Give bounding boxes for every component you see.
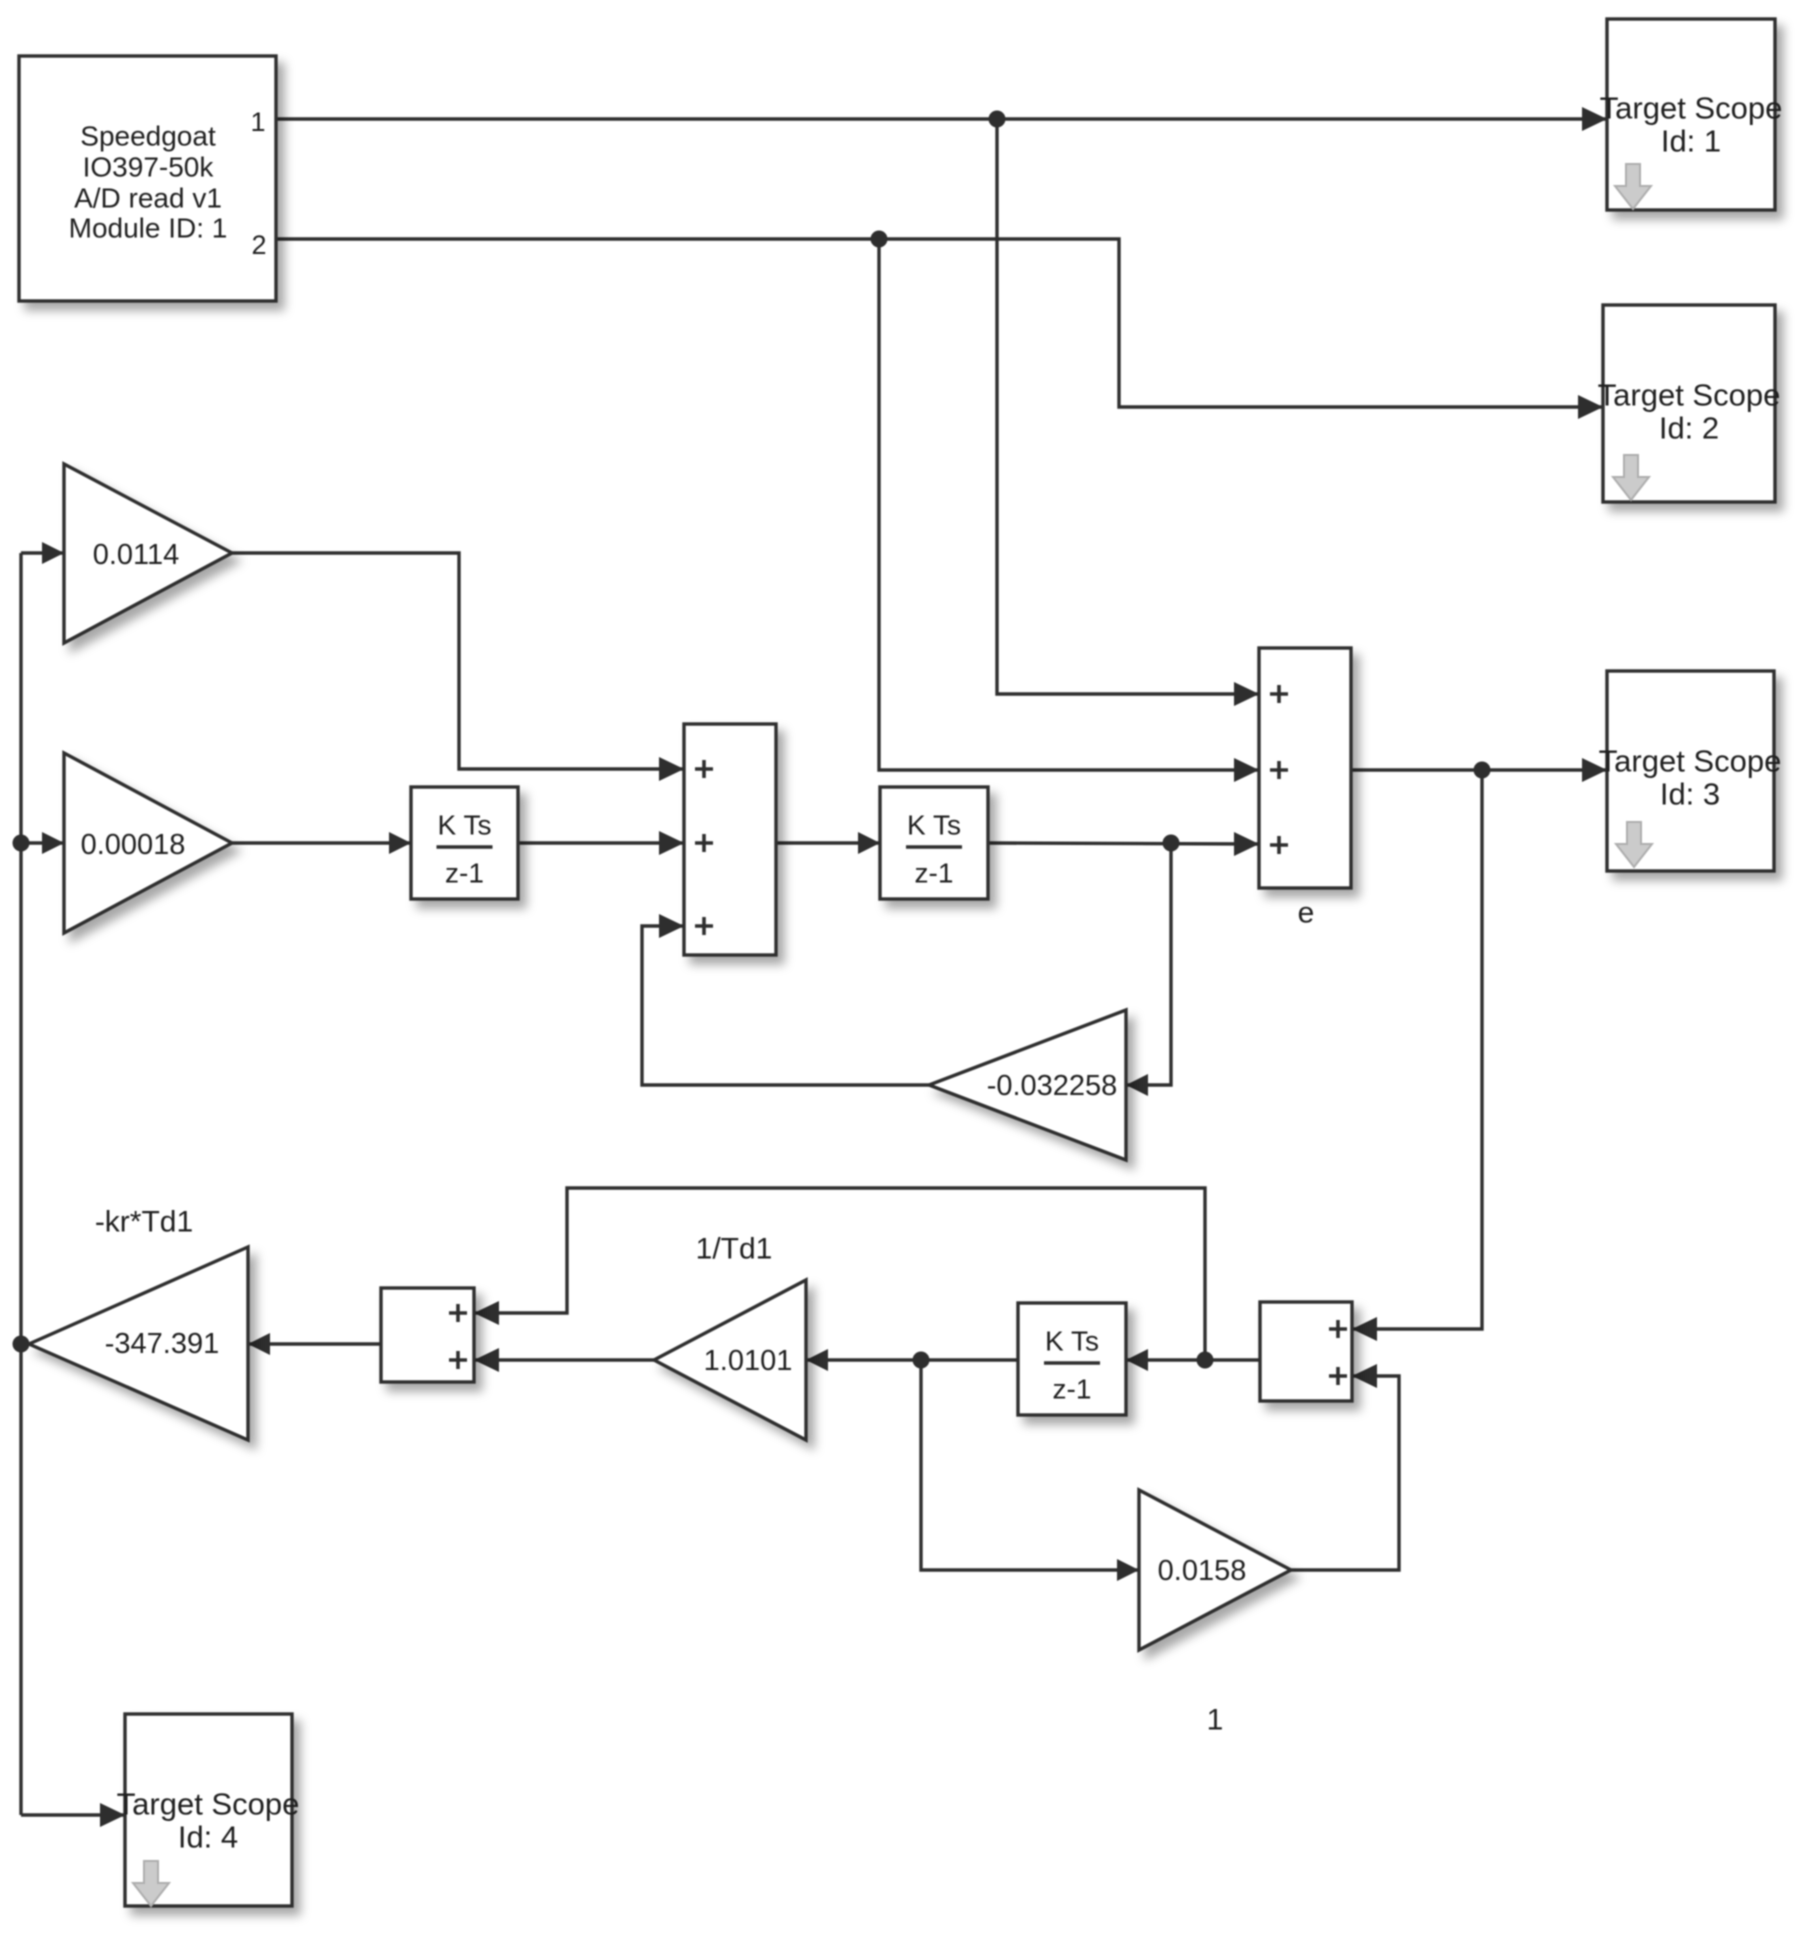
junction bus to gain 0.00018 (13, 835, 30, 852)
svg-text:Target Scope: Target Scope (1600, 91, 1783, 126)
block Target Scope Id 2 (1598, 305, 1781, 502)
gain -347.391 (-kr*Td1) (29, 1247, 248, 1440)
junction bus at -347.391 output (13, 1336, 30, 1353)
block Speedgoat IO397-50k A/D read (19, 56, 276, 301)
gain 0.0158 (1139, 1490, 1291, 1650)
svg-text:Module ID: 1: Module ID: 1 (69, 213, 228, 244)
wire gain 0.0114 output to sum 1 input 1 (232, 553, 684, 781)
svg-text:1/Td1: 1/Td1 (696, 1233, 773, 1266)
label e (1298, 897, 1315, 930)
wire K Ts z-1 (3) output to gain 1.0101 input (806, 1349, 1018, 1371)
junction on sum4 output wire (1197, 1352, 1214, 1369)
junction on port-2 wire (871, 231, 888, 248)
svg-text:z-1: z-1 (915, 858, 954, 889)
wire output 2 of Speedgoat toward Target Scope 2 (276, 239, 1603, 419)
svg-text:Target Scope: Target Scope (1599, 744, 1782, 779)
svg-text:1: 1 (250, 107, 265, 137)
svg-text:A/D read v1: A/D read v1 (74, 183, 222, 214)
wire K Ts z-1 (1) output to sum 1 input 2 (518, 831, 684, 855)
svg-text:0.0114: 0.0114 (93, 539, 180, 571)
sum block 3 (reversed, two inputs) (381, 1288, 474, 1382)
svg-text:1: 1 (1207, 1704, 1224, 1737)
sum block 4 (reversed, two inputs) (1260, 1302, 1352, 1401)
wire junction port1 down to sum e input 1 (997, 119, 1259, 706)
svg-text:Id: 4: Id: 4 (178, 1820, 238, 1855)
wire K Ts z-1 (2) output to sum e input 3 (988, 832, 1259, 856)
wire sum 3 output to gain -347.391 input (248, 1333, 381, 1355)
junction after K Ts z-1 (2) (1163, 835, 1180, 852)
wire gain 1.0101 output to sum 3 input 2 (474, 1348, 654, 1372)
wire gain -347.391 output to bus (21, 1342, 29, 1345)
wire sum e output to Target Scope 3 (1351, 758, 1607, 782)
junction before gain 1.0101 (913, 1352, 930, 1369)
svg-text:Id: 1: Id: 1 (1661, 124, 1721, 159)
sum block e (three inputs) (1259, 648, 1351, 888)
junction on port-1 wire (989, 111, 1006, 128)
block Target Scope Id 1 (1600, 19, 1783, 210)
discrete integrator K Ts/(z-1) #1 (411, 787, 518, 899)
block Target Scope Id 3 (1599, 671, 1782, 871)
svg-text:-kr*Td1: -kr*Td1 (95, 1206, 193, 1239)
wire junction down to gain 0.0158 input (921, 1360, 1139, 1581)
gain 0.0114 (64, 464, 232, 643)
wire gain 0.00018 output to K Ts z-1 (1) input (232, 832, 411, 854)
svg-text:1.0101: 1.0101 (704, 1345, 793, 1377)
svg-text:-0.032258: -0.032258 (987, 1070, 1118, 1102)
wire junction down to gain -0.032258 input (1126, 843, 1171, 1096)
wire bus to gain 0.0114 input (21, 542, 64, 564)
svg-text:K Ts: K Ts (907, 810, 961, 841)
svg-text:0.0158: 0.0158 (1158, 1555, 1247, 1587)
svg-text:e: e (1298, 897, 1315, 930)
wire sum 1 output to K Ts z-1 (2) input (776, 832, 880, 854)
discrete integrator K Ts/(z-1) #3 (1018, 1303, 1126, 1415)
wire bus to Target Scope 4 (21, 1803, 125, 1827)
gain -0.032258 (929, 1010, 1126, 1160)
svg-text:K Ts: K Ts (438, 810, 492, 841)
svg-text:0.00018: 0.00018 (81, 829, 186, 861)
junction on e output (1474, 762, 1491, 779)
sum block 1 (three inputs) (684, 724, 776, 955)
svg-text:z-1: z-1 (1053, 1374, 1092, 1405)
label -kr*Td1 (95, 1206, 193, 1239)
svg-text:Id: 2: Id: 2 (1659, 411, 1719, 446)
wire sum 4 output to K Ts z-1 (3) input (1126, 1349, 1260, 1371)
block Target Scope Id 4 (117, 1714, 300, 1906)
wire top feedback to sum 3 input 1 (474, 1188, 1205, 1360)
svg-text:Id: 3: Id: 3 (1660, 777, 1720, 812)
wire junction port2 down to sum e input 2 (879, 239, 1259, 782)
svg-text:2: 2 (251, 230, 266, 260)
wire gain -0.032258 output to sum 1 input 3 (642, 914, 929, 1085)
discrete integrator K Ts/(z-1) #2 (880, 787, 988, 899)
svg-text:K Ts: K Ts (1045, 1326, 1099, 1357)
svg-text:-347.391: -347.391 (105, 1328, 220, 1360)
wire left feedback bus vertical (19, 553, 22, 1815)
svg-text:Target Scope: Target Scope (117, 1787, 300, 1822)
svg-text:IO397-50k: IO397-50k (83, 152, 215, 183)
gain 0.00018 (64, 753, 232, 933)
gain 1.0101 (1/Td1) (654, 1280, 806, 1440)
svg-text:Target Scope: Target Scope (1598, 378, 1781, 413)
svg-text:z-1: z-1 (445, 858, 484, 889)
wire output 1 of Speedgoat to Target Scope 1 (276, 107, 1607, 131)
wire bus to gain 0.00018 input (21, 832, 64, 854)
wire e output down to sum 4 input 1 (1352, 770, 1482, 1341)
wire gain 0.0158 output to sum 4 input 2 (1291, 1364, 1399, 1570)
label 1/Td1 (696, 1233, 773, 1266)
label 1 under gain 0.0158 (1207, 1704, 1224, 1737)
svg-text:Speedgoat: Speedgoat (80, 121, 216, 152)
